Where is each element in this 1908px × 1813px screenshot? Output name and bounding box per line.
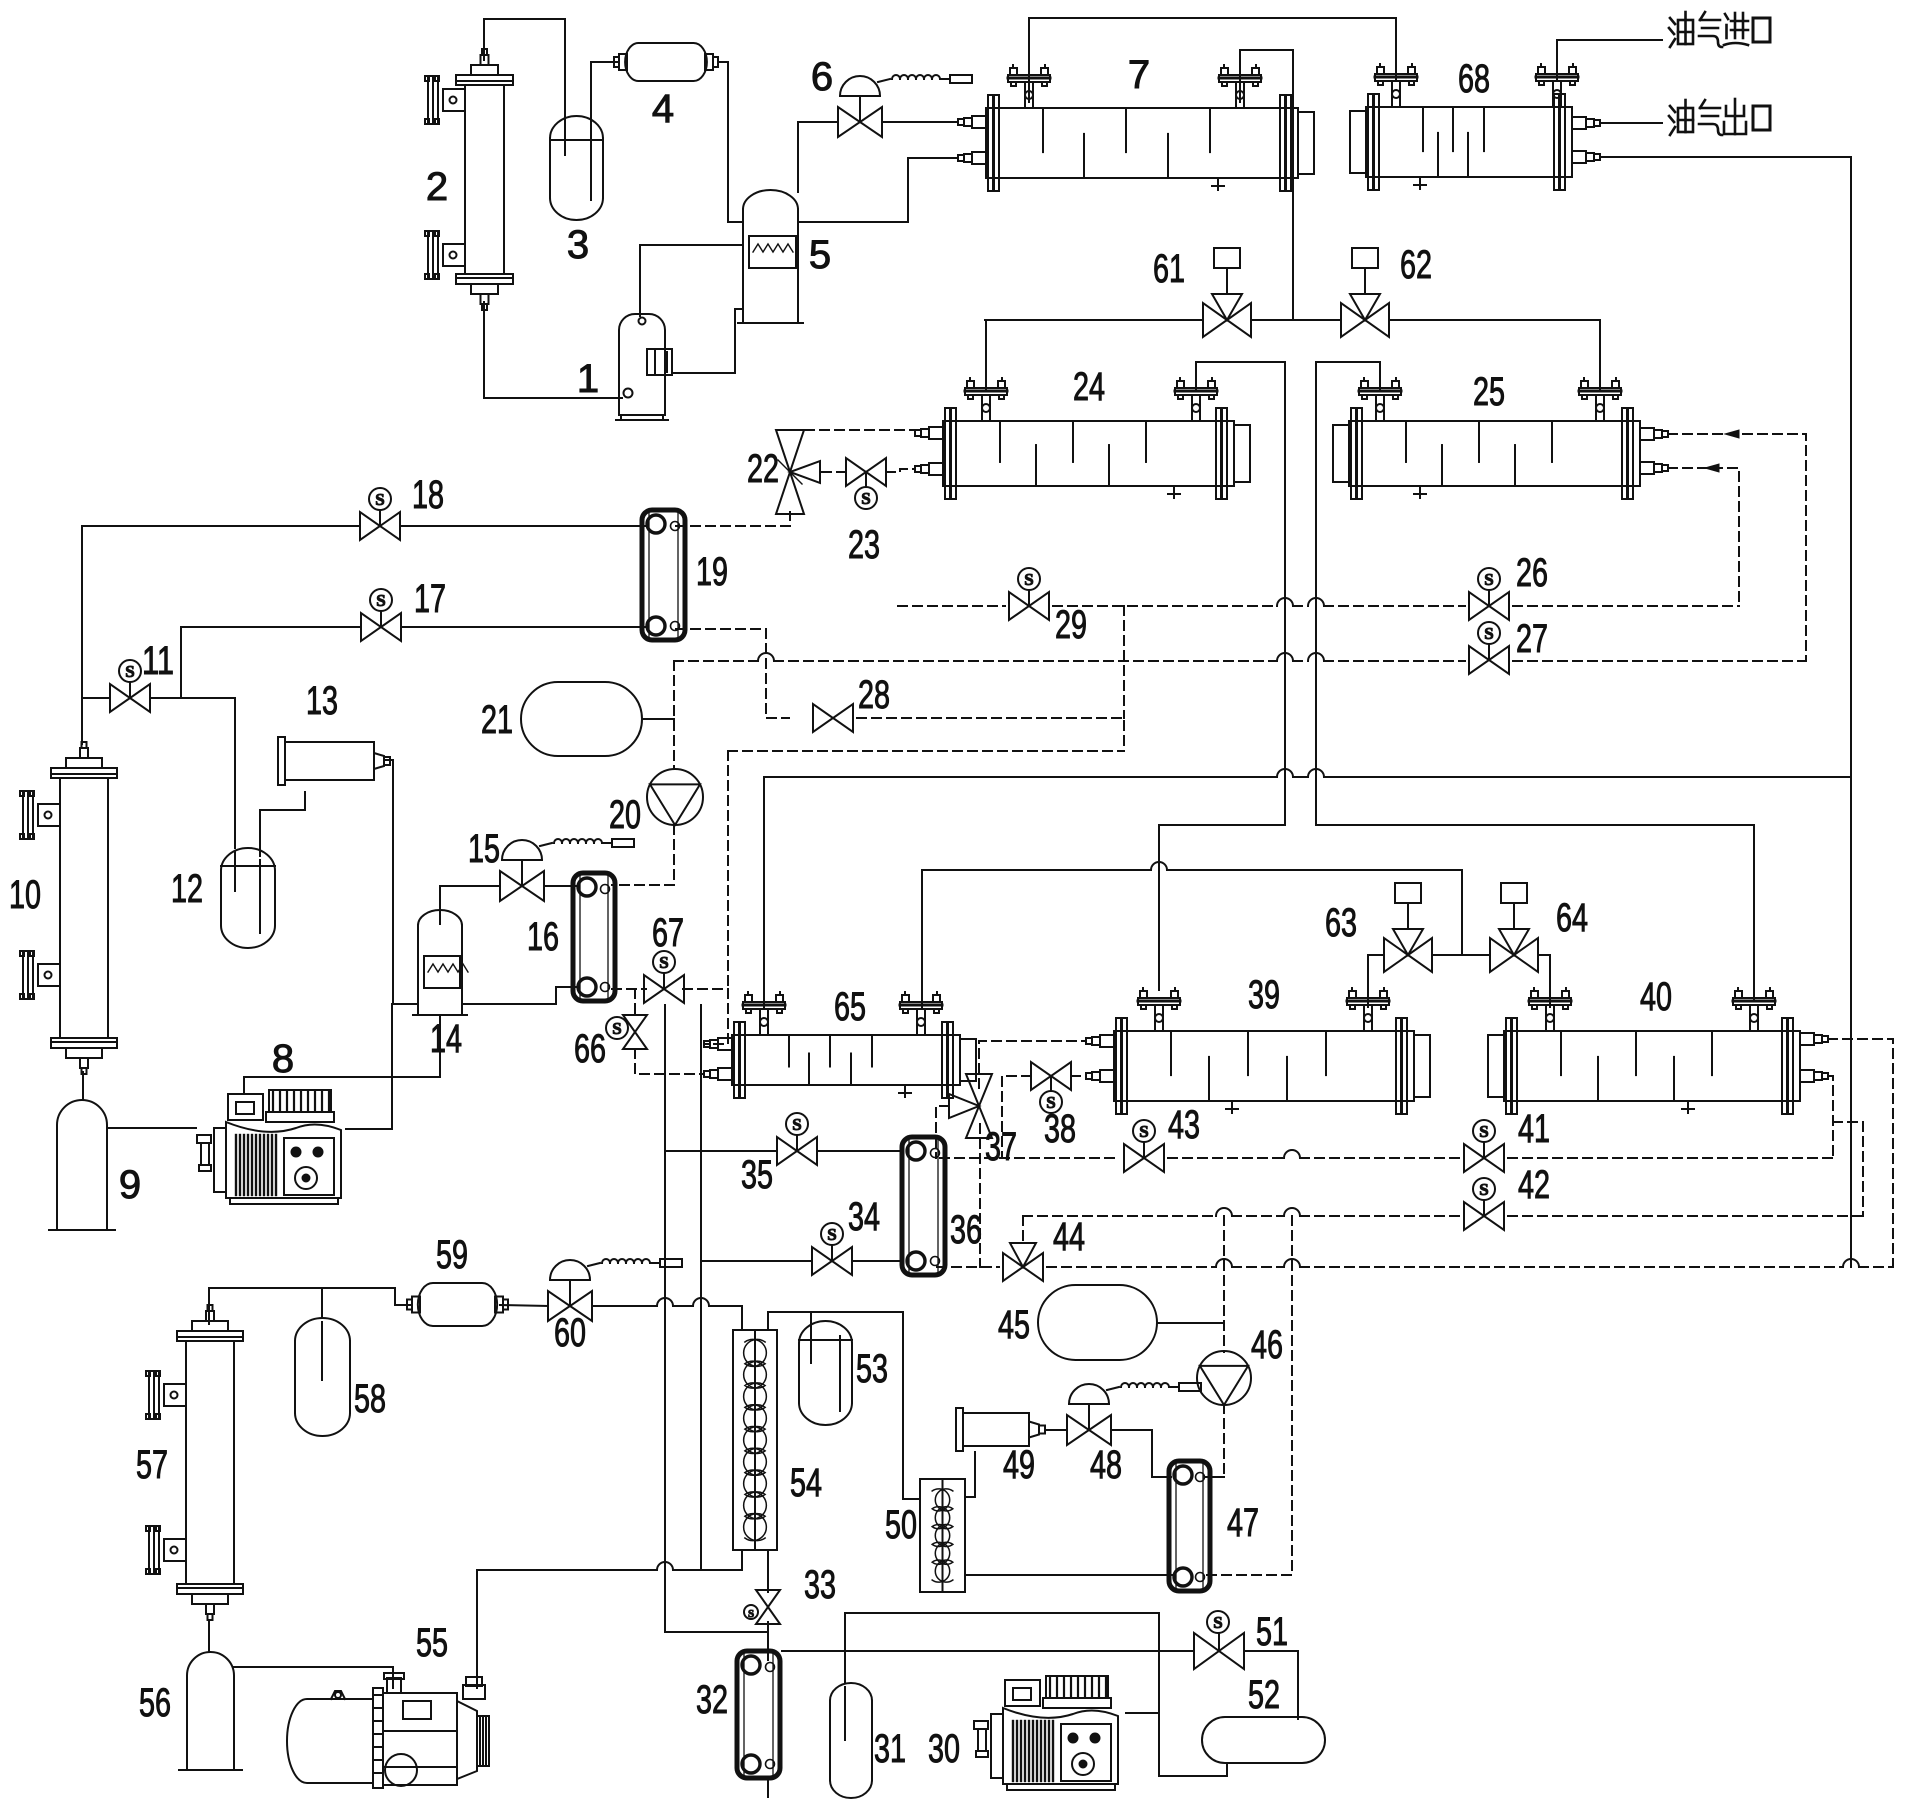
svg-text:S: S [1139, 1122, 1148, 1141]
wire coil50 to plate47 bottom left [965, 1574, 1172, 1576]
solenoid valve 42 [1464, 1178, 1504, 1230]
svg-text:34: 34 [848, 1195, 880, 1239]
solenoid valve 43 [1124, 1120, 1164, 1172]
vessel 10 [20, 742, 117, 1074]
dashed valve66/67 loop to HX65 stubs [683, 988, 728, 990]
filter 49 [956, 1408, 1045, 1451]
wire vessel10 bottom to tank9 [82, 1072, 84, 1100]
svg-text:44: 44 [1053, 1215, 1085, 1259]
svg-text:49: 49 [1003, 1443, 1035, 1487]
wire tank12 to tank13 [260, 792, 305, 856]
heat exchanger 68 shell [1350, 94, 1572, 190]
dashed pump20 drop to plate16 top right [673, 661, 675, 769]
wire coil54 bottom outlet to valve33 [767, 1550, 769, 1592]
svg-text:S: S [827, 1225, 836, 1244]
solenoid valve 35 [777, 1113, 817, 1165]
heat exchanger 24 nozzles [965, 378, 1217, 421]
wire valve63 ports [1368, 954, 1384, 956]
wire HX68 right nozzle to oil-gas inlet [1557, 40, 1662, 81]
svg-text:24: 24 [1073, 365, 1105, 409]
svg-text:57: 57 [136, 1443, 168, 1487]
svg-text:42: 42 [1518, 1163, 1550, 1207]
svg-text:38: 38 [1044, 1107, 1076, 1151]
expansion valve 15 [500, 839, 634, 901]
wire oval21 right stub [642, 718, 674, 720]
svg-text:55: 55 [416, 1621, 448, 1665]
expansion valve 60 [548, 1259, 682, 1321]
wire valve48 to plate47 top left [1111, 1430, 1171, 1477]
wire header to HX24 left nozzle [985, 320, 987, 390]
heat exchanger 40 nozzles [1529, 988, 1775, 1031]
dashed valve28 right bus [857, 718, 1124, 751]
svg-text:47: 47 [1227, 1501, 1259, 1545]
coil evaporator 54 [733, 1330, 777, 1550]
wire compressor1 discharge to vessel2 bottom [484, 302, 622, 398]
svg-text:S: S [659, 953, 668, 972]
wire vessel5 bottom to compressor1 [674, 309, 743, 373]
coil evaporator 50 [920, 1479, 965, 1592]
valve 28 [813, 704, 853, 732]
wire tank31 to tank52 via compressor30 junction [845, 1613, 1227, 1776]
svg-text:11: 11 [142, 639, 174, 683]
solenoid valve 17 [361, 589, 401, 641]
heat exchanger 24 shell [943, 408, 1250, 499]
svg-text:28: 28 [858, 673, 890, 717]
svg-text:60: 60 [554, 1311, 586, 1355]
svg-text:6: 6 [811, 55, 833, 99]
svg-text:30: 30 [928, 1727, 960, 1771]
dashed bus y606 [898, 605, 1005, 607]
dashed valve22 right to valve23 to HX24 lower stub [822, 471, 846, 473]
wire valve18 line [82, 525, 360, 527]
wire plate32 bottom [767, 1778, 769, 1797]
wire compressor1 suction from vessel5 left [640, 245, 743, 316]
svg-text:S: S [375, 490, 384, 509]
oval tank 21 [521, 682, 642, 756]
svg-text:40: 40 [1640, 975, 1672, 1019]
dashed plate16 bottom right to valve67 [612, 988, 646, 990]
solenoid valve 66 [606, 1015, 647, 1049]
motor valve 61 [1203, 248, 1251, 337]
svg-text:56: 56 [139, 1681, 171, 1725]
svg-text:8: 8 [272, 1037, 294, 1081]
wire valve17 line [181, 626, 361, 628]
compressor 1 [616, 314, 672, 420]
svg-text:39: 39 [1248, 973, 1280, 1017]
dashed HX40 upper stub loop [1828, 1039, 1893, 1267]
svg-text:59: 59 [436, 1233, 468, 1277]
text oil-gas inlet [1669, 12, 1770, 47]
wire HX7 right nozzle to valve61/62 line [1240, 50, 1293, 320]
svg-text:S: S [1213, 1613, 1222, 1632]
heat exchanger 65 side stubs [704, 1038, 732, 1080]
wire left riser x82 [81, 526, 83, 744]
dashed vertical x1125 [1123, 606, 1125, 718]
svg-text:45: 45 [998, 1303, 1030, 1347]
wire coil54 top right to tank53 and coil50 [768, 1312, 920, 1499]
plate heat exchanger 47 [1169, 1461, 1210, 1591]
svg-text:1: 1 [577, 357, 599, 401]
svg-text:18: 18 [412, 473, 444, 517]
wire coil50 right to filter49 bottom [965, 1452, 975, 1497]
wire HX7 left nozzle to HX68 left nozzle [1029, 18, 1396, 102]
svg-text:21: 21 [481, 698, 513, 742]
wire valve51 line to tank52 [782, 1650, 1194, 1652]
dashed valve22 top to HX24 upper stub [790, 430, 915, 433]
svg-text:S: S [748, 1608, 754, 1620]
wire vessel14 line to compressor8 top [244, 1017, 440, 1092]
svg-text:58: 58 [354, 1377, 386, 1421]
vessel 14 [413, 910, 468, 1015]
solenoid valve 11 [110, 660, 150, 712]
svg-text:52: 52 [1248, 1673, 1280, 1717]
dashed riser x1224 pump46 plate47 [1223, 1216, 1225, 1352]
wire plate47 top right to dashed riser [1206, 1476, 1224, 1478]
wire valve35 line to plate36 [665, 1150, 777, 1152]
wire valve6 right to HX7 upper stub [882, 121, 958, 123]
svg-text:43: 43 [1168, 1103, 1200, 1147]
dashed bus y751 [728, 750, 1124, 752]
wire valve11 line [82, 697, 110, 699]
compressor 30 [974, 1676, 1118, 1790]
dashed bus y751 left drop to valve67 line [727, 751, 729, 989]
wire vessel14 to plate16 bottom left [462, 987, 576, 1004]
heat exchanger 40 side stubs [1800, 1033, 1828, 1082]
wire down into tank12 [234, 698, 236, 848]
dashed plate19 top right to valve22 [676, 512, 790, 526]
svg-text:62: 62 [1400, 243, 1432, 287]
svg-text:S: S [125, 662, 134, 681]
solenoid valve 51 large [1194, 1611, 1244, 1669]
plate heat exchanger 19 [642, 510, 685, 640]
vessel 57 [146, 1305, 243, 1620]
motor valve 64 [1490, 883, 1538, 972]
wire tank3 to filter4 [591, 62, 619, 135]
svg-text:9: 9 [119, 1163, 141, 1207]
tank 12 [221, 848, 275, 948]
wire hot-gas line y777 [764, 776, 1277, 778]
wire vessel57 bottom to tank56 [208, 1622, 210, 1652]
dashed bus y1267 [937, 1266, 999, 1268]
expansion valve 48 [1067, 1383, 1201, 1445]
svg-text:7: 7 [1128, 53, 1150, 97]
dashed HX40 lower stub loop [1828, 1076, 1833, 1158]
svg-text:36: 36 [950, 1208, 982, 1252]
motor valve 63 [1384, 883, 1432, 972]
svg-text:5: 5 [809, 233, 831, 277]
dashed valve37 branch to bus y1158 [936, 1106, 949, 1158]
svg-text:16: 16 [527, 915, 559, 959]
wire valve64 ports [1538, 954, 1550, 956]
svg-text:12: 12 [171, 867, 203, 911]
three-way valve 37 [949, 1074, 992, 1138]
svg-text:15: 15 [468, 827, 500, 871]
wire tank9 to compressor8 [107, 1127, 196, 1129]
solenoid valve 27 [1469, 622, 1509, 674]
oval tank 45 [1038, 1285, 1157, 1360]
svg-text:53: 53 [856, 1347, 888, 1391]
motor valve 62 [1341, 248, 1389, 337]
wire valve60 to coil54 top [592, 1305, 657, 1307]
svg-text:48: 48 [1090, 1443, 1122, 1487]
solenoid valve 33 [744, 1590, 780, 1624]
svg-text:25: 25 [1473, 370, 1505, 414]
wire header to HX25 right nozzle [1599, 320, 1601, 390]
dashed HX25 upper stub loop [1668, 434, 1806, 661]
dashed valve37 bottom to bus y1267 [979, 1124, 981, 1267]
svg-text:S: S [1484, 624, 1493, 643]
svg-text:65: 65 [834, 985, 866, 1029]
solenoid valve 23 [846, 458, 886, 509]
wire valve34 line to plate36 [701, 1260, 812, 1262]
svg-text:14: 14 [430, 1017, 462, 1061]
wire filter4 to vessel5 [718, 62, 743, 222]
dashed valve37 top to HX39 upper stub [979, 1041, 1086, 1088]
expansion valve 6 [838, 75, 972, 137]
svg-text:4: 4 [652, 87, 674, 131]
svg-text:10: 10 [9, 873, 41, 917]
wire HX7 lower stub to vessel5 right [798, 158, 958, 222]
compressor 8 [197, 1090, 341, 1204]
heat exchanger 39 shell [1114, 1018, 1430, 1114]
heat exchanger 68 nozzles [1375, 64, 1578, 107]
tank 52 [1202, 1717, 1325, 1763]
dashed bus y1216 [1023, 1215, 1216, 1217]
wire valve33 to plate32 [767, 1622, 769, 1660]
svg-text:31: 31 [874, 1727, 906, 1771]
svg-text:66: 66 [574, 1027, 606, 1071]
dashed riser x1292 to plate47 bottom right [1206, 1216, 1292, 1575]
tank 56 [179, 1652, 242, 1770]
wire valve6 left to vessel5 top [798, 122, 838, 192]
dashed valve38 to HX39 lower stub [1071, 1075, 1086, 1077]
tank 31 [830, 1683, 872, 1798]
wire HX24 right nozzle riser [1159, 362, 1285, 990]
svg-text:S: S [376, 591, 385, 610]
svg-text:68: 68 [1458, 57, 1490, 101]
svg-text:13: 13 [306, 679, 338, 723]
heat exchanger 25 nozzles [1359, 378, 1621, 421]
wire compressor30 discharge [1126, 1712, 1159, 1714]
wire riser to valve17 line [180, 627, 182, 698]
svg-text:19: 19 [696, 550, 728, 594]
heat exchanger 7 side stubs [958, 116, 986, 164]
heat exchanger 24 side stubs [915, 427, 943, 475]
svg-text:S: S [1484, 570, 1493, 589]
filter 59 [407, 1283, 508, 1326]
svg-text:51: 51 [1256, 1610, 1288, 1654]
tank 58 [295, 1318, 350, 1436]
wire central vertical x665 [664, 1005, 666, 1632]
filter 4 [614, 43, 718, 81]
wire filter49 to valve48 [1045, 1429, 1067, 1431]
solenoid valve 18 [360, 488, 400, 540]
wire HX68 lower right stub down right side [1600, 157, 1851, 1267]
pump 46 [1197, 1351, 1251, 1405]
svg-text:27: 27 [1516, 617, 1548, 661]
plate heat exchanger 16 [573, 873, 615, 1001]
dashed bus y1158 [940, 1157, 1120, 1159]
text oil-gas outlet [1669, 99, 1770, 135]
svg-text:67: 67 [652, 911, 684, 955]
heat exchanger 65 shell [732, 1022, 976, 1098]
heat exchanger 68 side stubs [1572, 117, 1600, 163]
svg-text:26: 26 [1516, 551, 1548, 595]
tank 13 [278, 737, 390, 785]
tank 3 [550, 116, 603, 220]
tank 53 [799, 1321, 852, 1425]
wire compressor55 discharge riser and y1570 header [476, 1570, 478, 1688]
wire oval45 right stub [1157, 1322, 1224, 1324]
solenoid valve 29 [1009, 568, 1049, 620]
svg-text:S: S [861, 489, 870, 508]
plate heat exchanger 36 [902, 1137, 945, 1275]
wire compressor8 discharge to vessel14 [346, 1004, 418, 1129]
solenoid valve 34 [812, 1223, 852, 1275]
heat exchanger 39 side stubs [1086, 1035, 1114, 1082]
wire HX68 upper right stub to oil-gas outlet [1600, 122, 1662, 124]
svg-text:17: 17 [414, 577, 446, 621]
tank 9 [49, 1100, 115, 1230]
svg-text:54: 54 [790, 1461, 822, 1505]
wire vessel2 top to tank3 [484, 19, 565, 150]
wire HX25 left nozzle riser [1316, 362, 1754, 1000]
pump 20 [647, 769, 703, 825]
svg-text:29: 29 [1055, 603, 1087, 647]
heat exchanger 7 nozzles [1008, 65, 1261, 108]
svg-text:S: S [612, 1019, 621, 1038]
svg-text:23: 23 [848, 523, 880, 567]
wire tank13 right to junction [384, 760, 393, 1004]
svg-text:50: 50 [885, 1503, 917, 1547]
heat exchanger 65 nozzles [743, 992, 942, 1035]
svg-text:S: S [1479, 1122, 1488, 1141]
svg-text:32: 32 [696, 1678, 728, 1722]
solenoid valve 41 [1464, 1120, 1504, 1172]
svg-text:S: S [1024, 570, 1033, 589]
svg-text:63: 63 [1325, 901, 1357, 945]
heat exchanger 7 shell [986, 95, 1314, 191]
plate heat exchanger 32 [737, 1651, 780, 1778]
svg-text:33: 33 [804, 1563, 836, 1607]
svg-text:46: 46 [1251, 1323, 1283, 1367]
svg-text:61: 61 [1153, 247, 1185, 291]
svg-text:20: 20 [609, 793, 641, 837]
wire vessel57 to tank58 and filter59 [209, 1288, 412, 1324]
three-way valve 44 [1003, 1243, 1043, 1281]
svg-text:35: 35 [741, 1153, 773, 1197]
vessel 5 [738, 190, 803, 323]
svg-text:37: 37 [985, 1125, 1017, 1169]
wire central vertical x701 [700, 1005, 702, 1570]
wire vessel14 top to valve15 [440, 886, 500, 924]
svg-text:S: S [1479, 1180, 1488, 1199]
svg-text:3: 3 [567, 223, 589, 267]
solenoid valve 26 [1469, 568, 1509, 620]
wire y777 down to HX65 left nozzle [763, 777, 765, 1007]
dashed bus y661 [674, 660, 758, 662]
wire HX65 right nozzle riser to valves63/64 [921, 870, 923, 1007]
solenoid valve 67 [644, 951, 684, 1003]
heat exchanger 25 side stubs [1640, 428, 1668, 474]
heat exchanger 25 shell [1333, 408, 1640, 499]
wire valve61 valve62 header [985, 319, 1203, 321]
heat exchanger 40 shell [1488, 1018, 1800, 1114]
svg-text:S: S [792, 1115, 801, 1134]
three-way valve 22 [776, 430, 820, 514]
dashed valve44 top stem to bus y1216 [1022, 1216, 1024, 1243]
wire valve15 to plate16 top left [544, 885, 576, 887]
dashed plate19 bottom right to valve28 [676, 629, 789, 718]
svg-text:22: 22 [747, 447, 779, 491]
heat exchanger 39 nozzles [1138, 988, 1389, 1031]
wire x665 bottom to valve33 line [665, 1631, 768, 1633]
svg-text:64: 64 [1556, 896, 1588, 940]
svg-text:41: 41 [1518, 1107, 1550, 1151]
svg-text:2: 2 [426, 165, 448, 209]
compressor 55 [287, 1673, 489, 1788]
solenoid valve 38 [1031, 1062, 1071, 1113]
wire filter59 to valve60 [500, 1305, 548, 1306]
wire tank56 to compressor55 [234, 1667, 393, 1688]
vessel 2 [425, 49, 513, 310]
dashed HX25 lower stub loop [1668, 468, 1739, 606]
